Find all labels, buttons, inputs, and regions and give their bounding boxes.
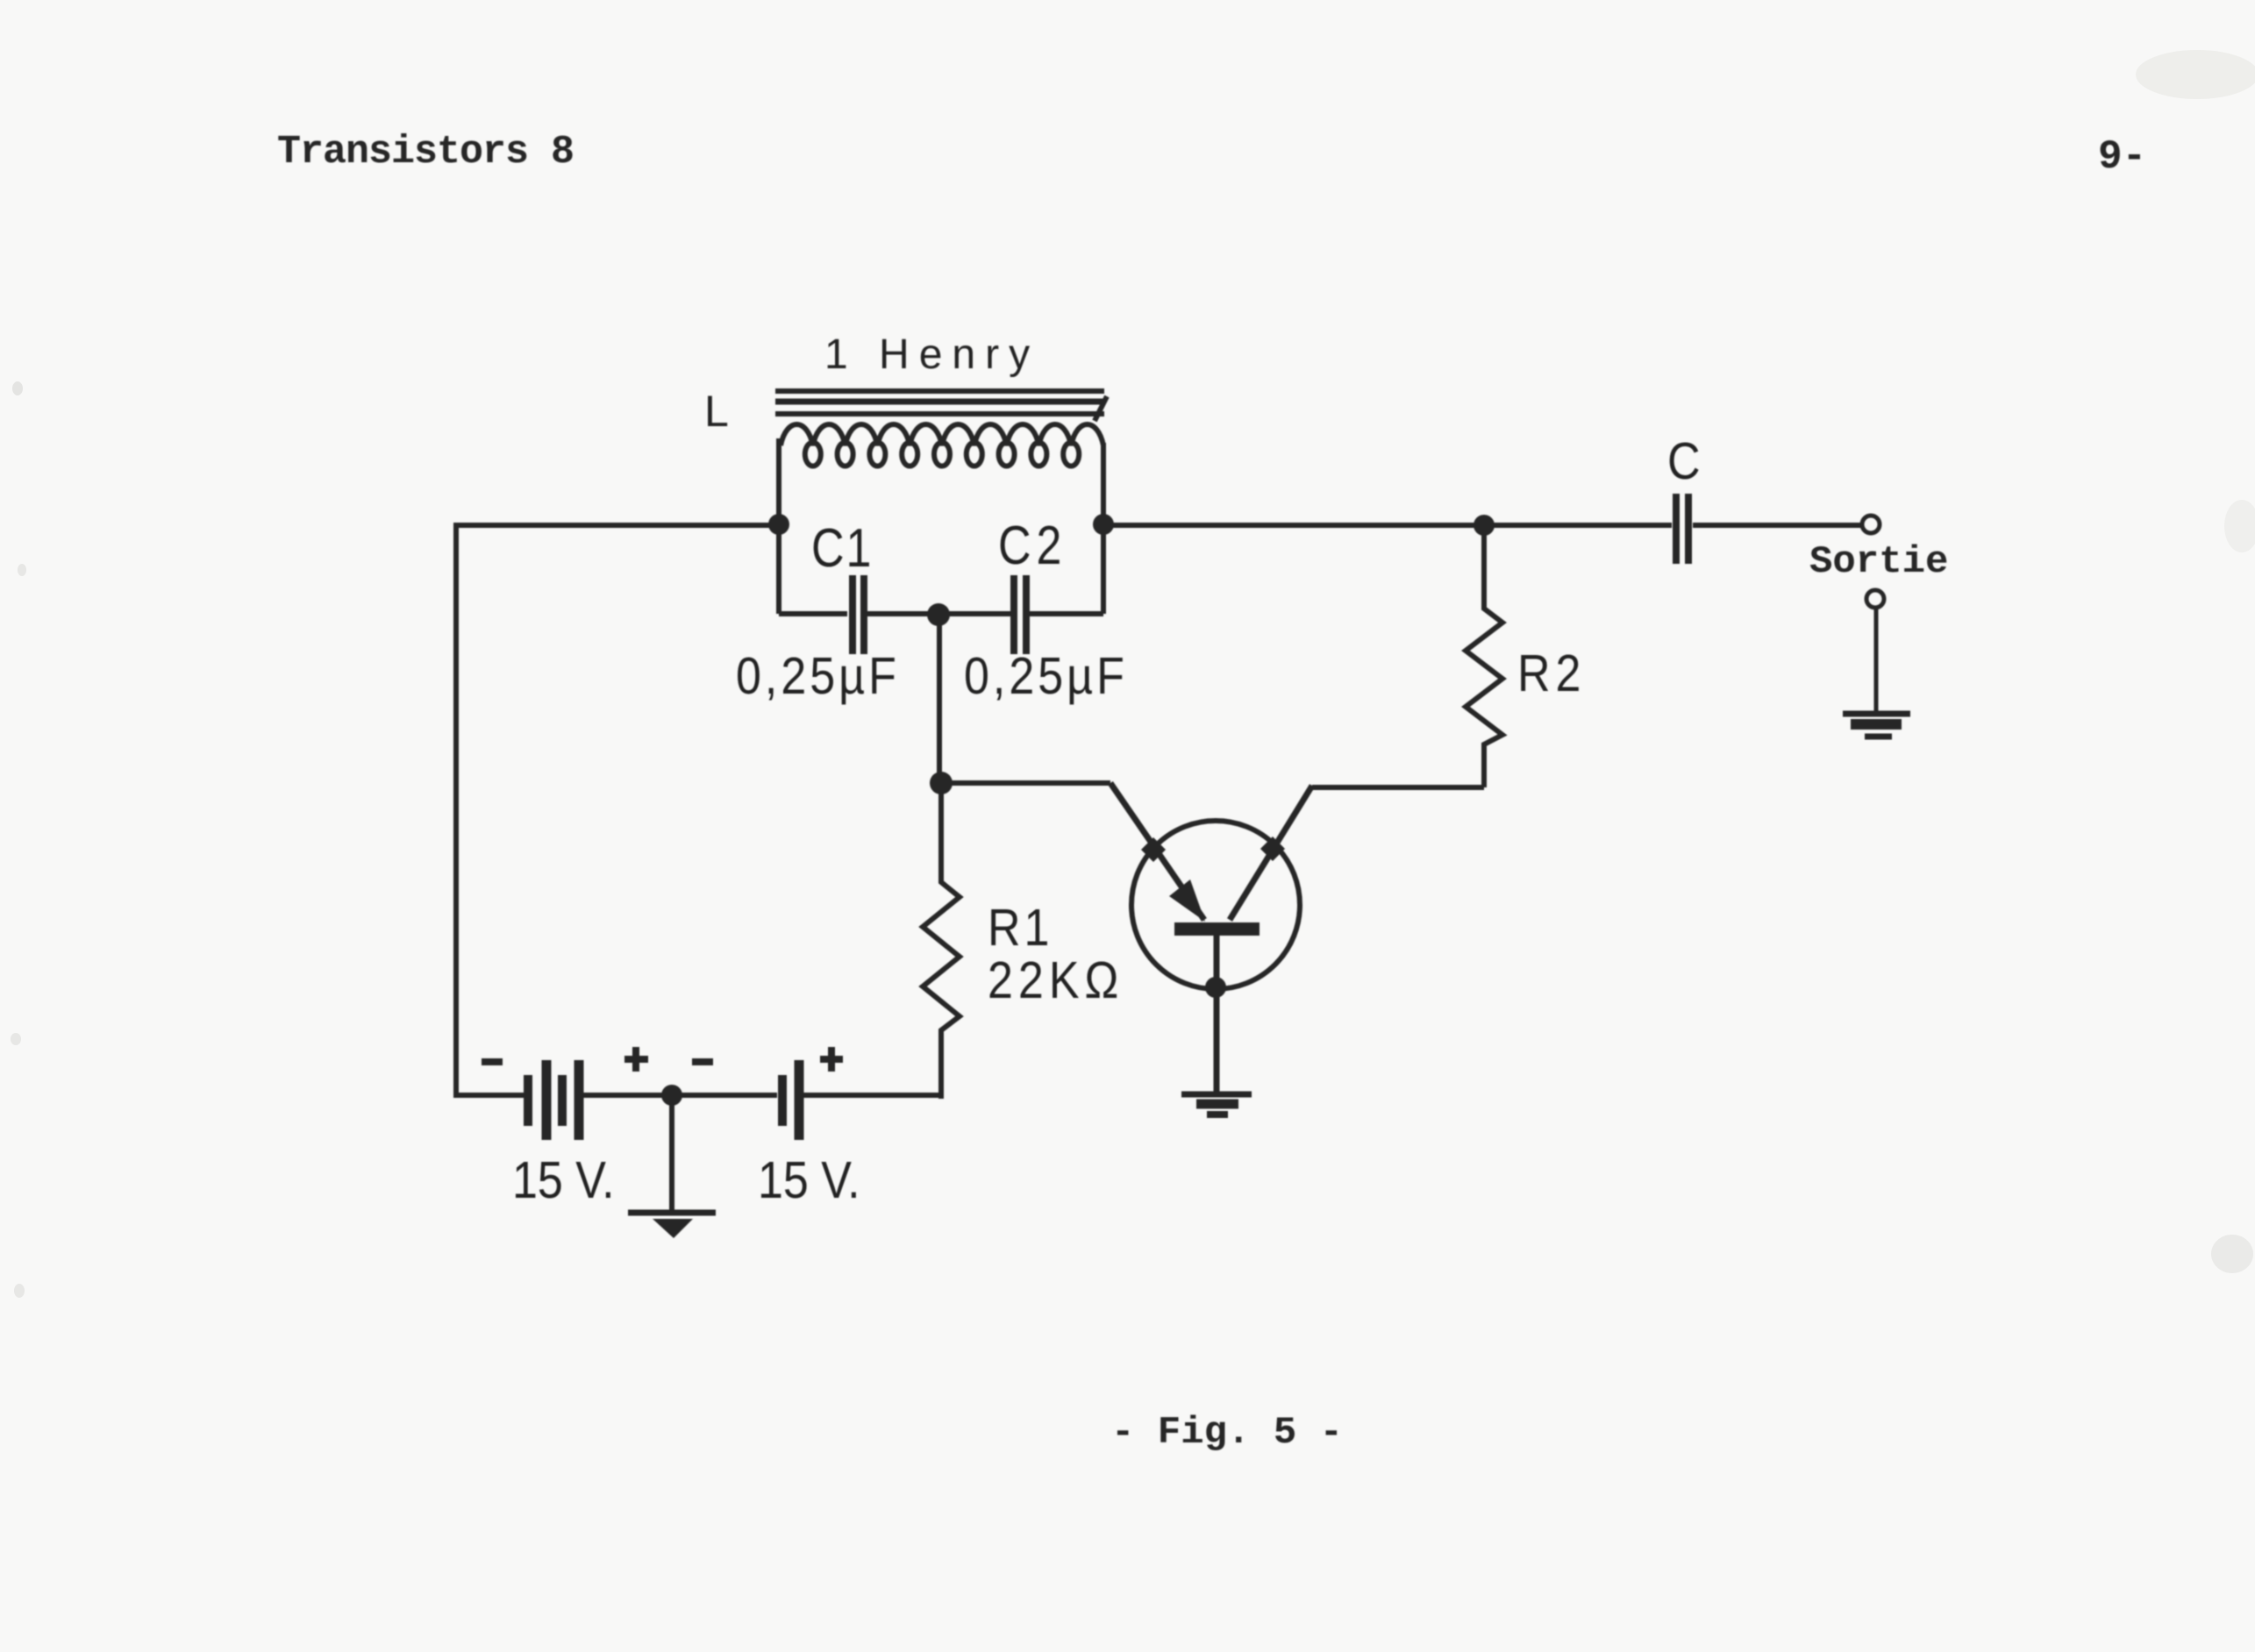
svg-text:C1: C1 — [811, 518, 873, 580]
wire: tank bottom centre segment — [867, 611, 1010, 616]
wire: left vertical supply rail — [453, 525, 459, 1098]
svg-text:9-: 9- — [2098, 134, 2146, 180]
inductor L core lines — [775, 388, 1104, 394]
wire: cap to output terminal — [1693, 523, 1862, 528]
wire: battery to R1 bottom — [799, 1093, 944, 1098]
transistor Q1 body circle — [1131, 821, 1300, 989]
wire: base lead down — [1214, 935, 1220, 1094]
svg-text:C: C — [1667, 431, 1701, 490]
wire: tank left vertical — [776, 438, 781, 614]
wire: between batteries — [579, 1093, 777, 1098]
terminal: output return — [1866, 590, 1884, 608]
label minus B1 — [482, 1058, 503, 1065]
svg-text:C2: C2 — [998, 516, 1067, 577]
battery B2 (15V, one cell) — [778, 1075, 787, 1126]
wire: battery midpoint to ground — [669, 1095, 674, 1212]
node: R2 top junction — [1474, 515, 1495, 536]
wire: tank right vertical — [1101, 443, 1106, 614]
capacitor C1 plates — [853, 575, 864, 654]
transistor collector contact square — [1260, 837, 1285, 861]
node: battery midpoint — [661, 1085, 682, 1106]
node: capacitor midpoint — [927, 603, 950, 626]
wire: top horizontal from rail to tank left node — [453, 523, 779, 528]
wire: tank bottom right segment — [1030, 611, 1103, 616]
svg-text:R2: R2 — [1517, 644, 1586, 702]
svg-text:15 V.: 15 V. — [512, 1150, 615, 1209]
label plus B2 — [820, 1047, 843, 1072]
svg-text:Sortie: Sortie — [1809, 540, 1948, 584]
svg-text:1 Henry: 1 Henry — [824, 331, 1039, 378]
label plus B1 — [624, 1047, 648, 1072]
svg-text:R1: R1 — [988, 898, 1053, 957]
wire: midpoint down to base node — [937, 615, 942, 783]
ground at output — [1843, 711, 1910, 717]
svg-text:L: L — [704, 387, 729, 436]
inductor L winding — [781, 424, 1103, 445]
wire: bottom rail to battery — [456, 1093, 526, 1098]
node: base lead crosses circle — [1205, 977, 1226, 998]
capacitor C plates — [1676, 494, 1688, 564]
wire: tank bottom left segment — [779, 611, 847, 616]
node: base/R1 junction — [930, 772, 953, 794]
ground at battery midpoint — [628, 1210, 716, 1216]
wire: base node to emitter diagonal — [941, 780, 1110, 786]
transistor collector lead — [1230, 786, 1312, 920]
wire: return terminal to ground — [1874, 608, 1879, 712]
svg-text:22KΩ: 22KΩ — [988, 951, 1124, 1009]
svg-text:0,25µF: 0,25µF — [964, 646, 1128, 705]
ground under transistor — [1181, 1092, 1252, 1098]
capacitor C2 plates — [1014, 575, 1026, 654]
wire: main output wire from tank to coupling cap — [1103, 523, 1672, 528]
resistor R1 — [923, 783, 960, 1099]
transistor base bar — [1174, 922, 1260, 936]
wire: collector up to horizontal run — [1312, 785, 1484, 790]
battery B1 (15V, two cells) — [524, 1075, 532, 1126]
node: tank right junction — [1093, 514, 1114, 535]
svg-text:0,25µF: 0,25µF — [736, 646, 900, 705]
svg-text:- Fig. 5 -: - Fig. 5 - — [1111, 1411, 1343, 1455]
resistor R2 — [1466, 525, 1502, 787]
label minus B2 — [692, 1058, 713, 1065]
transistor emitter lead (with arrow) — [1110, 783, 1204, 920]
svg-text:15 V.: 15 V. — [758, 1150, 860, 1209]
node: tank left junction — [768, 514, 789, 535]
terminal: output — [1862, 516, 1880, 533]
svg-text:Transistors 8: Transistors 8 — [277, 130, 574, 174]
transistor emitter contact square — [1141, 837, 1166, 862]
